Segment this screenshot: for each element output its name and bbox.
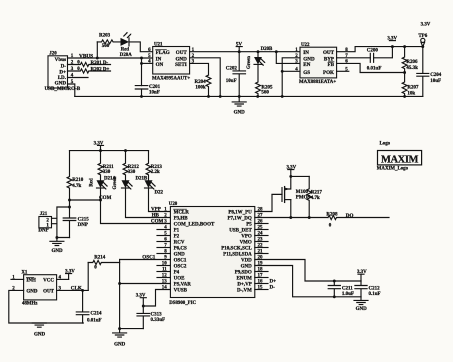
svg-text:J21: J21 — [40, 212, 48, 217]
svg-text:D-: D- — [270, 285, 276, 291]
svg-text:P3,HB: P3,HB — [174, 217, 189, 222]
pin 27 1W_DQ wire — [255, 214, 328, 219]
svg-text:R206: R206 — [406, 60, 418, 65]
ground symbol (VDD caps) — [354, 297, 368, 312]
pin 9 OSC1 wire — [120, 255, 171, 261]
svg-text:D-: D- — [61, 63, 67, 69]
svg-text:4.7k: 4.7k — [72, 184, 81, 189]
wire U21 SETI pin3 to R204 — [190, 63, 209, 75]
svg-text:GND: GND — [234, 110, 246, 115]
svg-text:10: 10 — [162, 262, 168, 267]
node D21A / COM — [99, 199, 102, 202]
svg-text:0: 0 — [94, 266, 97, 271]
wire C215 node to J21 — [57, 207, 70, 238]
svg-text:DNP: DNP — [38, 229, 48, 234]
pin 5 stub — [157, 232, 170, 237]
node C211 bottom — [333, 295, 336, 298]
svg-text:Logo: Logo — [380, 141, 391, 146]
wire D21B cathode to HB pin2 — [126, 188, 171, 218]
pin 26 stub — [255, 220, 268, 225]
svg-text:U22: U22 — [301, 43, 310, 48]
svg-text:IN: IN — [303, 50, 309, 56]
node C215 top — [68, 206, 71, 209]
svg-text:10uF: 10uF — [226, 79, 237, 84]
wire U22 FB pin6 to divider — [337, 63, 405, 72]
svg-text:19: 19 — [258, 262, 264, 267]
svg-text:0.01uF: 0.01uF — [87, 318, 102, 323]
svg-text:R208: R208 — [326, 213, 338, 218]
pin 12 stub — [157, 274, 170, 279]
X1 pin2 GND wire — [9, 287, 84, 323]
node M100 drain / R217 top — [289, 175, 292, 178]
svg-text:C202: C202 — [226, 66, 238, 71]
capacitor C212 0.1uF — [355, 281, 381, 297]
ground symbol (C313 rail) — [113, 329, 127, 348]
svg-text:U21: U21 — [154, 42, 163, 47]
svg-text:EN: EN — [303, 62, 310, 68]
svg-text:24: 24 — [258, 232, 264, 237]
pin 22 stub — [255, 244, 268, 249]
svg-text:C313: C313 — [151, 313, 163, 318]
pin 6 stub — [157, 238, 170, 243]
resistor R213 2.2k — [146, 151, 162, 181]
svg-text:22: 22 — [258, 244, 264, 249]
pin 28 wire to M100 gate — [255, 194, 282, 212]
svg-text:27: 27 — [258, 214, 264, 219]
resistor R205 560 — [256, 64, 273, 96]
svg-text:POK: POK — [323, 70, 334, 76]
svg-text:VBUS: VBUS — [79, 53, 93, 59]
svg-text:P5: P5 — [246, 223, 252, 228]
node C201 on rail — [140, 95, 143, 98]
wire EN tie to 5V — [276, 52, 300, 64]
svg-text:MCLR: MCLR — [174, 211, 190, 216]
svg-text:D20B: D20B — [261, 47, 273, 52]
capacitor C202 10uF — [226, 52, 246, 97]
svg-text:MAX8881EATA+: MAX8881EATA+ — [299, 80, 336, 85]
svg-text:0.1uF: 0.1uF — [369, 292, 381, 297]
node TP6 on 3.3V line — [421, 45, 424, 48]
svg-text:P1: P1 — [174, 229, 180, 234]
node FB divider junction — [403, 71, 406, 74]
svg-text:10nF: 10nF — [149, 91, 160, 96]
svg-text:MAXIM_Logo: MAXIM_Logo — [377, 166, 409, 171]
svg-text:DS8900_PIC: DS8900_PIC — [169, 301, 196, 306]
svg-text:GND: GND — [34, 333, 46, 338]
node 5V / C202 — [238, 50, 241, 53]
svg-text:P9,SDO: P9,SDO — [235, 271, 252, 276]
svg-text:28: 28 — [258, 208, 264, 213]
wire 3.3V LED rail — [70, 150, 149, 152]
svg-text:Vbus: Vbus — [55, 57, 66, 63]
svg-text:D22: D22 — [155, 190, 164, 195]
svg-text:26: 26 — [258, 220, 264, 225]
svg-text:X1: X1 — [21, 270, 28, 275]
svg-text:VPO: VPO — [241, 235, 252, 240]
pin 17 stub — [255, 274, 268, 279]
svg-text:ENUM: ENUM — [237, 277, 253, 282]
svg-text:R217: R217 — [311, 190, 323, 195]
svg-text:OSC1: OSC1 — [142, 255, 155, 261]
pin 21 stub — [255, 250, 268, 255]
svg-text:VUSB: VUSB — [174, 289, 188, 294]
svg-text:VPP: VPP — [151, 207, 161, 213]
svg-text:D-,VM: D-,VM — [237, 289, 252, 294]
svg-text:10k: 10k — [407, 91, 415, 96]
svg-text:10uF: 10uF — [430, 79, 441, 84]
wire J20 pin4 ID stub — [68, 77, 89, 79]
node C215 bottom — [55, 236, 58, 239]
svg-text:100k: 100k — [195, 86, 206, 91]
LED D21B Green — [113, 176, 148, 189]
resistor R208 0 — [326, 213, 389, 229]
svg-text:U20: U20 — [169, 202, 178, 207]
node R217 on DQ — [308, 216, 311, 219]
svg-text:12: 12 — [162, 274, 168, 279]
svg-text:P10,SCK,SCL: P10,SCK,SCL — [221, 247, 252, 252]
ground symbol (top section) — [232, 96, 246, 115]
test point TP6 3.3V — [418, 22, 430, 46]
svg-text:COM: COM — [151, 219, 164, 225]
wire COM down to U20 pin3 — [101, 200, 171, 224]
power symbol 5V — [236, 42, 243, 52]
svg-text:C214: C214 — [90, 312, 102, 317]
svg-text:25: 25 — [258, 226, 264, 231]
wire U22 POK pin5 stub — [337, 70, 349, 72]
wire D21A cathode to COM — [100, 188, 102, 200]
pin 16 D+ stub — [255, 279, 276, 285]
svg-text:1.0uF: 1.0uF — [342, 292, 354, 297]
svg-text:VDD: VDD — [241, 259, 252, 264]
IC U20 DS8900_PIC — [169, 202, 255, 306]
svg-text:21: 21 — [258, 250, 264, 255]
svg-text:VMO: VMO — [240, 241, 252, 246]
node D20B anode on 5V — [257, 50, 260, 53]
wire VBUS down to ON pin4 and C201 — [141, 58, 143, 86]
svg-text:USB_DET: USB_DET — [229, 229, 252, 234]
ground symbol (J21/C215) — [50, 238, 64, 255]
svg-text:P4: P4 — [174, 271, 180, 276]
wire U22 OUT pin8 to 3.3V line — [337, 47, 423, 52]
wire to U21 ON pin4 — [142, 62, 153, 64]
pin 18 stub — [255, 268, 268, 273]
node R211 top — [99, 149, 102, 152]
node R210 / COM — [68, 199, 71, 202]
svg-text:13: 13 — [162, 280, 168, 285]
resistor R206 45.3k — [402, 47, 418, 73]
svg-text:ON: ON — [156, 62, 164, 68]
svg-text:MAX4995AAUT+: MAX4995AAUT+ — [152, 76, 190, 81]
svg-text:OSC1: OSC1 — [174, 259, 187, 264]
svg-text:C204: C204 — [430, 73, 442, 78]
node C202 on rail — [238, 95, 241, 98]
svg-text:D+,VP: D+,VP — [237, 283, 251, 288]
svg-text:GND: GND — [241, 265, 253, 270]
IC U21 MAX4995AAUT+ — [148, 42, 195, 81]
svg-text:R207: R207 — [407, 86, 419, 91]
node GS junction — [281, 70, 284, 73]
svg-text:D20A: D20A — [120, 53, 132, 58]
resistor R202 0 (D+ series) — [68, 67, 111, 73]
svg-text:0.01uF: 0.01uF — [367, 67, 382, 72]
pin 10 stub — [157, 262, 170, 267]
resistor R217 4.7k — [307, 176, 323, 217]
LED D20B Green — [247, 47, 273, 69]
svg-text:GS: GS — [303, 70, 310, 76]
node VUSB / C313 — [142, 305, 145, 308]
oscillator X1 48MHz — [21, 270, 56, 306]
node ON pin4 junction — [140, 62, 143, 65]
resistor R207 10k — [402, 73, 419, 97]
wire U22 GND pin2 to rail and GS pin4 — [282, 58, 300, 97]
svg-text:Red: Red — [121, 47, 130, 52]
pin 11 stub — [157, 268, 170, 273]
ground symbol (X1/C214 rail) — [32, 323, 46, 338]
Maxim logo block — [377, 141, 422, 171]
svg-text:560: 560 — [102, 44, 110, 49]
svg-text:48MHz: 48MHz — [22, 302, 38, 307]
pin 4 stub — [157, 226, 170, 231]
svg-text:23: 23 — [258, 238, 264, 243]
svg-text:J20: J20 — [49, 52, 57, 57]
svg-text:UOE: UOE — [174, 277, 186, 282]
capacitor C313 0.33uF — [137, 306, 165, 329]
resistor R203 560 — [97, 33, 120, 49]
resistor R214 0 — [88, 256, 119, 271]
svg-text:P2: P2 — [174, 235, 180, 240]
node U22 GND on rail — [281, 95, 284, 98]
svg-text:MAXIM: MAXIM — [381, 154, 419, 165]
svg-text:0.33uF: 0.33uF — [151, 318, 166, 323]
resistor R201 0 (D- series) — [68, 61, 111, 67]
transistor M100 PMOS — [272, 176, 310, 202]
svg-text:GND: GND — [356, 307, 368, 312]
power symbol 3.3V (VDD caps) — [357, 270, 367, 281]
svg-text:GND: GND — [51, 249, 63, 254]
svg-text:4.7k: 4.7k — [311, 196, 320, 201]
wire U22 BYP pin7 to C200 — [337, 57, 371, 59]
node R206 top on 3.3V line — [403, 45, 406, 48]
svg-text:11: 11 — [162, 268, 167, 273]
svg-text:560: 560 — [261, 91, 269, 96]
capacitor C211 1.0uF — [328, 281, 354, 297]
node ground rail corner — [118, 327, 121, 330]
svg-text:SETI: SETI — [175, 62, 187, 68]
svg-text:2.2k: 2.2k — [151, 170, 160, 175]
svg-text:OUT: OUT — [323, 50, 335, 56]
svg-text:P6,CS: P6,CS — [174, 247, 187, 252]
node M100 on DQ — [289, 216, 292, 219]
svg-text:R203: R203 — [99, 33, 111, 38]
wire R214 left to CLK — [87, 263, 89, 291]
capacitor C214 0.01uF — [76, 290, 102, 323]
svg-text:R204: R204 — [194, 80, 206, 85]
svg-text:Green: Green — [247, 56, 252, 69]
resistor R204 100k — [194, 75, 210, 96]
svg-text:17: 17 — [258, 274, 264, 279]
capacitor C201 10nF — [135, 85, 160, 97]
svg-text:VCC: VCC — [43, 279, 54, 284]
svg-text:GND: GND — [114, 342, 126, 347]
svg-text:18: 18 — [258, 268, 264, 273]
svg-text:330: 330 — [128, 170, 136, 175]
ground rail (top section) — [75, 95, 423, 97]
node VBUS junction to R203 — [96, 57, 99, 60]
power symbol 3.3V (LDO output) — [387, 37, 397, 42]
svg-text:45.3k: 45.3k — [406, 66, 418, 71]
node VBUS branch to ON/C201 — [140, 57, 143, 60]
pin 7 stub — [157, 244, 170, 249]
svg-text:HB: HB — [152, 213, 160, 219]
svg-text:C201: C201 — [149, 85, 161, 90]
node R212 top — [124, 149, 127, 152]
svg-text:3.3V: 3.3V — [421, 22, 431, 27]
node pin13 on column — [118, 282, 121, 285]
power symbol 3.3V (LED rail) — [94, 141, 104, 150]
svg-text:Red: Red — [90, 178, 95, 187]
svg-text:OUT: OUT — [176, 50, 188, 56]
svg-text:P11,SDI,SDA: P11,SDI,SDA — [223, 253, 252, 258]
svg-text:P7,1W_DQ: P7,1W_DQ — [227, 217, 251, 222]
node C211 top — [333, 280, 336, 283]
wire COM node — [70, 199, 101, 201]
pin 23 stub — [255, 238, 268, 243]
wire M100 source to DQ — [290, 200, 292, 218]
node 3.3V stub on OUT line — [391, 45, 394, 48]
svg-text:330: 330 — [103, 170, 111, 175]
node R204 on rail — [207, 95, 210, 98]
svg-text:FLAG: FLAG — [156, 50, 170, 56]
svg-text:OUT: OUT — [43, 290, 55, 295]
pin 20 VDD wire — [255, 256, 361, 281]
svg-text:R214: R214 — [94, 256, 106, 261]
svg-text:R210: R210 — [72, 178, 84, 183]
svg-text:OSC2: OSC2 — [174, 265, 187, 270]
pin 13 wire to ground column — [120, 280, 171, 285]
X1 pin4 VCC to 3.3V — [57, 276, 69, 281]
pin 15 D- stub — [255, 285, 275, 291]
svg-text:CLK: CLK — [71, 286, 82, 292]
wire GS pin4 — [282, 70, 300, 72]
resistor R212 330 — [123, 151, 139, 181]
svg-text:R201 D-: R201 D- — [91, 61, 109, 66]
wire D20A cathode to U21 FLAG pin6 — [129, 42, 153, 52]
svg-text:Green: Green — [113, 176, 118, 189]
pin 14 VUSB wire — [143, 286, 170, 306]
wire VBUS net (J20 pin1 to U21 IN) — [68, 53, 153, 59]
svg-text:PS,VAR: PS,VAR — [174, 283, 192, 288]
wire 3.3V to R217 — [291, 175, 309, 177]
wire 5V net (U21 OUT to U22 IN) — [190, 51, 300, 53]
power symbol 3.3V (VUSB) — [136, 294, 147, 306]
pin 24 stub — [255, 232, 268, 237]
power symbol 3.3V (X1) — [65, 270, 75, 280]
wire U21 GND pin2 to rail — [190, 58, 221, 97]
node C214 on CLK — [81, 289, 84, 292]
wire R210 to C215 node — [69, 200, 71, 207]
wire D22 cathode to VPP pin1 — [149, 188, 171, 212]
svg-text:GND: GND — [174, 253, 186, 258]
IC U22 MAX8881EATA+ — [295, 43, 348, 85]
svg-text:C200: C200 — [367, 49, 379, 54]
capacitor C200 0.01uF — [367, 47, 393, 72]
LED D20A Red — [120, 32, 132, 58]
svg-text:C211: C211 — [342, 286, 353, 291]
svg-text:DQ: DQ — [346, 213, 354, 219]
capacitor C204 10uF — [417, 47, 442, 97]
resistor R210 4.7k — [67, 151, 84, 200]
svg-text:P8,1W_PU: P8,1W_PU — [228, 211, 252, 216]
wire bottom ground rail — [120, 328, 144, 330]
power symbol 3.3V (1-wire pullup) — [286, 166, 296, 177]
svg-text:16: 16 — [258, 280, 264, 285]
svg-text:GND: GND — [26, 290, 38, 295]
pin 8 stub — [157, 250, 170, 255]
pin 19 GND wire — [255, 262, 361, 297]
connector J20 USB_MICRO-B — [45, 52, 81, 92]
svg-text:INH: INH — [26, 279, 36, 284]
node R207 on rail — [403, 95, 406, 98]
svg-text:FB: FB — [327, 62, 334, 68]
svg-text:C215: C215 — [78, 218, 90, 223]
svg-text:14: 14 — [162, 286, 168, 291]
LED D21A Red — [90, 177, 117, 190]
svg-text:COM_LED,BOOT: COM_LED,BOOT — [174, 223, 215, 228]
capacitor C215 DNP — [63, 207, 89, 238]
node 5V to U22 EN branch — [275, 50, 278, 53]
X1 pin1 stub — [11, 276, 24, 281]
svg-text:C212: C212 — [369, 286, 381, 291]
pin 25 stub — [255, 226, 268, 231]
svg-text:20: 20 — [258, 256, 264, 261]
node R205 on rail — [256, 95, 259, 98]
wire OSC1 column down to ground — [119, 260, 121, 329]
svg-text:RCV: RCV — [174, 241, 185, 246]
wire VBUS up to R203 — [96, 42, 98, 58]
svg-text:15: 15 — [258, 286, 264, 291]
resistor R211 330 — [98, 151, 114, 181]
svg-text:DNP: DNP — [78, 223, 88, 228]
wire J20 pin5 GND to ground rail — [68, 84, 75, 96]
svg-text:R202 D+: R202 D+ — [91, 67, 110, 72]
node U21 GND on rail — [219, 95, 222, 98]
connector J21 DNP — [38, 212, 57, 234]
svg-text:0: 0 — [329, 223, 332, 228]
LED D22 — [145, 180, 164, 195]
X1 pin3 CLK wire — [57, 286, 89, 292]
